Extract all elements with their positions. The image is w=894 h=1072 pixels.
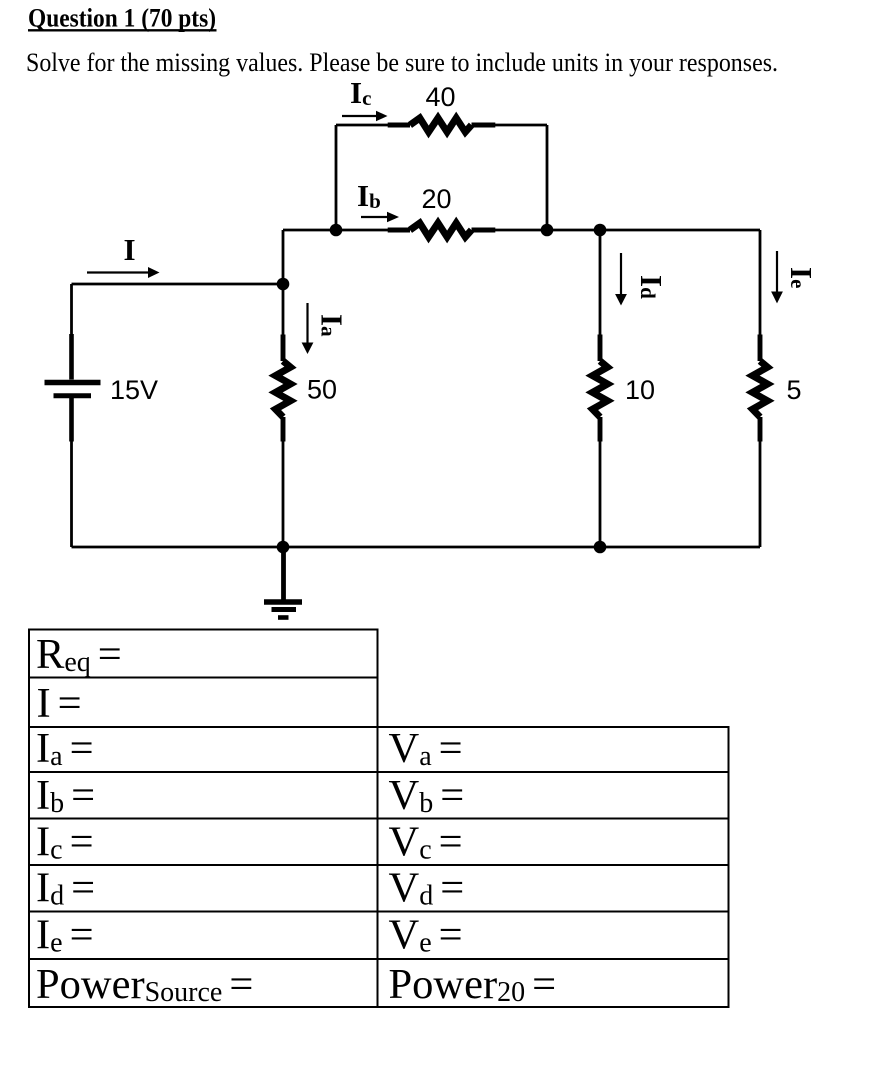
svg-text:5: 5 bbox=[787, 375, 802, 405]
svg-text:Solve for the missing values.: Solve for the missing values. Please be … bbox=[26, 48, 778, 77]
svg-text:50: 50 bbox=[307, 375, 337, 405]
svg-text:Question 1 (70 pts): Question 1 (70 pts) bbox=[28, 4, 216, 33]
svg-text:15V: 15V bbox=[110, 375, 158, 405]
svg-text:I: I bbox=[124, 232, 136, 267]
svg-text:I =: I = bbox=[37, 680, 82, 727]
svg-text:20: 20 bbox=[422, 184, 452, 214]
svg-text:40: 40 bbox=[426, 82, 456, 112]
svg-text:10: 10 bbox=[625, 375, 655, 405]
